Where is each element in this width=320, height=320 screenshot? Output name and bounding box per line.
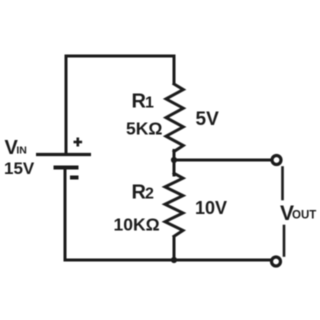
wire battery+ to top to R1 [66, 56, 174, 154]
wire Vout bracket lower [283, 226, 286, 256]
wire Vout bracket upper [281, 168, 284, 200]
svg-text:15V: 15V [4, 159, 35, 178]
svg-text:10V: 10V [195, 198, 227, 218]
svg-text:VOUT: VOUT [280, 202, 316, 225]
svg-text:R1: R1 [132, 90, 154, 112]
battery V1 negative plate [54, 166, 79, 170]
svg-text:VIN: VIN [5, 137, 27, 159]
battery V1 positive plate [36, 153, 91, 156]
resistor R1 [166, 84, 183, 152]
wire middle horizontal to output [174, 159, 271, 162]
wire battery- to bottom rail [65, 167, 271, 260]
terminal top output [272, 156, 281, 165]
battery minus sign [70, 176, 79, 180]
node junction R1/R2 tap [171, 157, 177, 163]
terminal bottom output [272, 257, 281, 266]
node junction bottom [171, 257, 177, 263]
svg-text:10KΩ: 10KΩ [114, 215, 160, 235]
svg-text:5V: 5V [196, 109, 220, 130]
resistor R2 [165, 173, 183, 236]
wire R1-R2 mid lead [173, 151, 176, 176]
svg-text:R2: R2 [132, 182, 154, 204]
wire R2 bottom lead [173, 236, 176, 261]
battery plus sign [74, 138, 83, 147]
svg-text:5KΩ: 5KΩ [126, 119, 162, 139]
